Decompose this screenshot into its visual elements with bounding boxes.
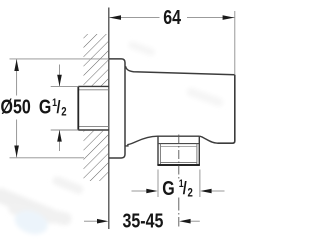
svg-text:64: 64	[163, 6, 181, 28]
svg-text:G: G	[162, 177, 174, 199]
svg-text:35-45: 35-45	[123, 210, 164, 232]
svg-text:2: 2	[188, 187, 193, 200]
svg-text:/: /	[183, 179, 187, 199]
svg-text:Ø50: Ø50	[1, 96, 31, 118]
svg-text:G: G	[39, 96, 51, 118]
svg-text:/: /	[57, 97, 61, 117]
svg-text:2: 2	[61, 105, 66, 118]
